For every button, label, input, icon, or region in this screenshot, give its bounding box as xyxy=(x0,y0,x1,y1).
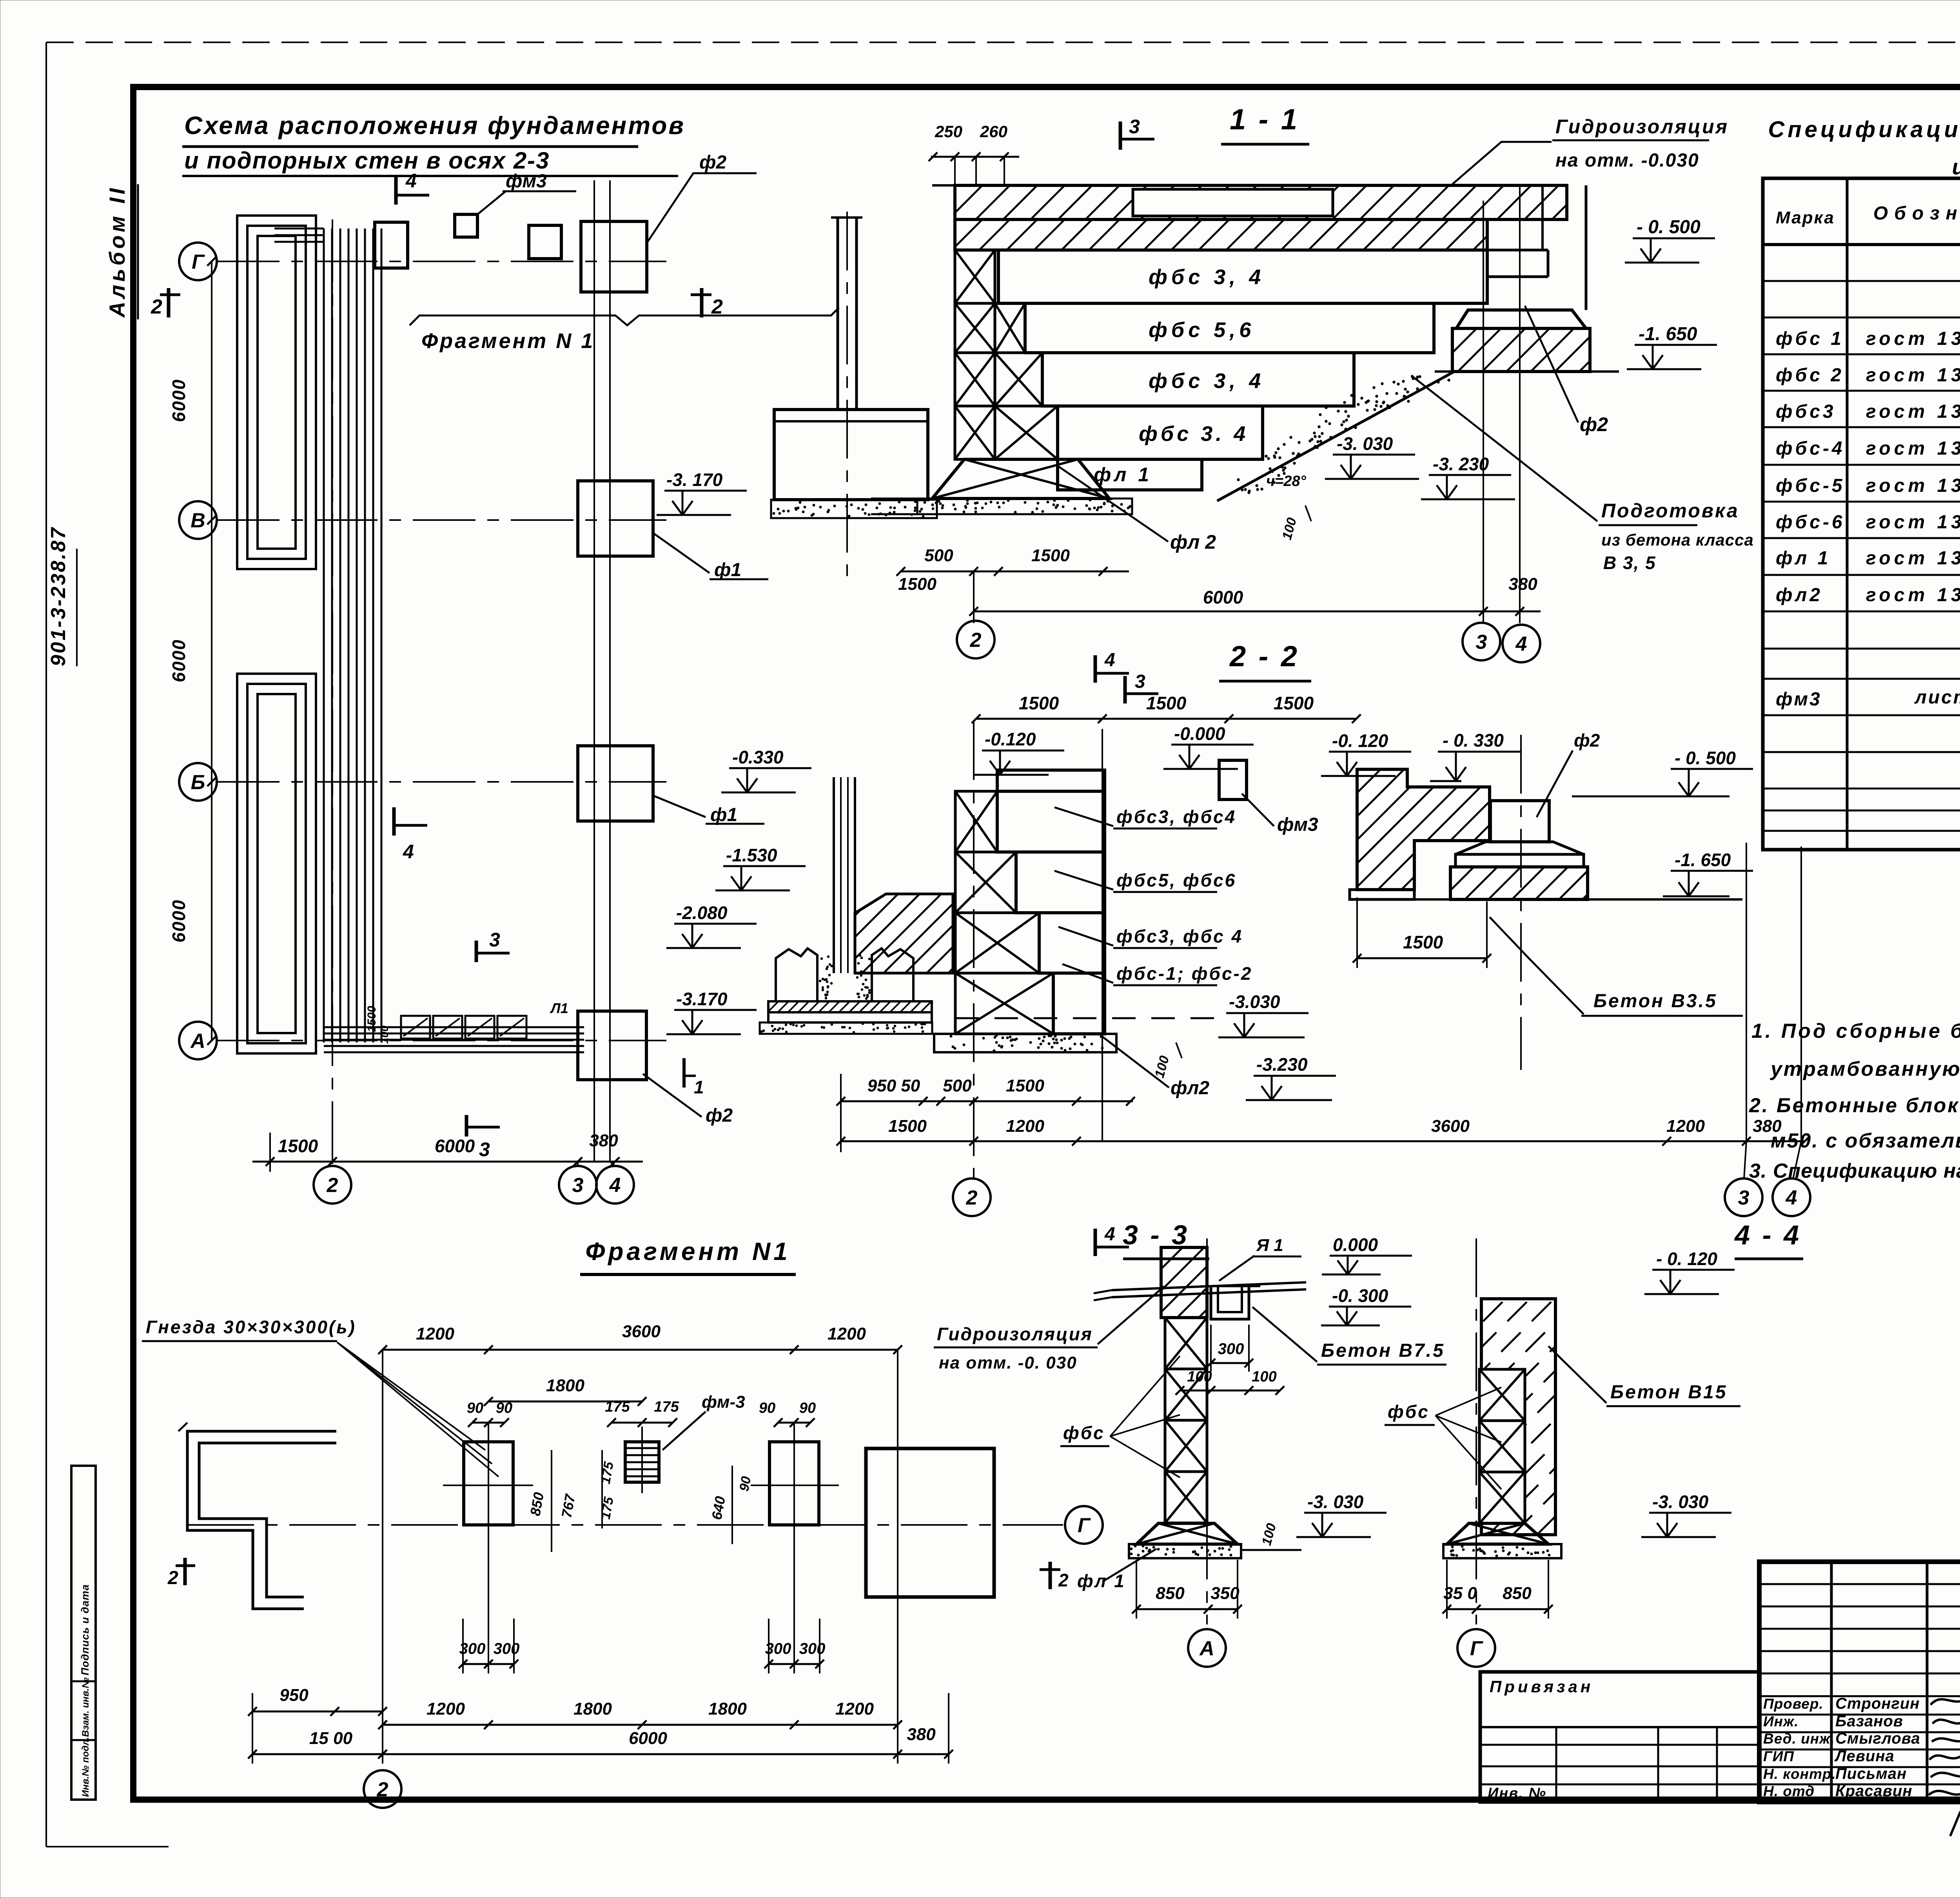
svg-text:1200: 1200 xyxy=(835,1699,874,1719)
svg-text:Красавин: Красавин xyxy=(1835,1782,1913,1800)
svg-text:4 - 4: 4 - 4 xyxy=(1734,1220,1801,1250)
svg-text:6000: 6000 xyxy=(169,899,189,943)
svg-text:3. Спецификацию на каналы с: 3. Спецификацию на каналы см. лист. кж-3… xyxy=(1749,1160,1960,1182)
svg-text:на отм. -0. 030: на отм. -0. 030 xyxy=(939,1353,1077,1372)
svg-text:-3. 030: -3. 030 xyxy=(1337,433,1393,454)
svg-text:Марка: Марка xyxy=(1776,208,1835,227)
svg-text:1. Под сборные бетонные бло: 1. Под сборные бетонные блоки выполнить … xyxy=(1751,1020,1960,1042)
svg-text:фбс5, фбс6: фбс5, фбс6 xyxy=(1116,870,1236,890)
svg-text:Инв.№ подл.: Инв.№ подл. xyxy=(80,1737,91,1797)
svg-text:- 0. 120: - 0. 120 xyxy=(1656,1249,1717,1269)
svg-text:Г: Г xyxy=(1470,1637,1483,1660)
svg-text:2: 2 xyxy=(151,295,162,318)
svg-text:гост 13580 - 85: гост 13580 - 85 xyxy=(1866,548,1960,569)
svg-text:2: 2 xyxy=(377,1778,388,1801)
svg-text:фл 1: фл 1 xyxy=(1776,548,1831,569)
svg-text:380: 380 xyxy=(907,1725,936,1744)
svg-text:2: 2 xyxy=(711,295,723,318)
svg-text:-0.000: -0.000 xyxy=(1174,723,1225,744)
svg-text:Фрагмент N 1: Фрагмент N 1 xyxy=(421,329,595,353)
svg-text:90: 90 xyxy=(496,1400,512,1416)
svg-text:Бетон В15: Бетон В15 xyxy=(1610,1382,1727,1403)
svg-text:300: 300 xyxy=(799,1640,826,1657)
svg-text:1800: 1800 xyxy=(546,1376,584,1395)
svg-text:0.000: 0.000 xyxy=(1333,1235,1378,1255)
svg-text:фбс 3, 4: фбс 3, 4 xyxy=(1149,369,1265,393)
svg-text:Смыглова: Смыглова xyxy=(1835,1730,1920,1747)
svg-text:гост 13580 - 85: гост 13580 - 85 xyxy=(1866,585,1960,605)
svg-text:-2.080: -2.080 xyxy=(676,903,728,923)
svg-text:на отм. -0.030: на отм. -0.030 xyxy=(1555,150,1699,171)
svg-text:и подпорных стен: и подпорных стен xyxy=(1952,154,1960,179)
svg-text:-3. 230: -3. 230 xyxy=(1433,454,1489,474)
svg-text:-0.330: -0.330 xyxy=(732,747,784,767)
svg-text:фбс 3. 4: фбс 3. 4 xyxy=(1139,422,1249,446)
svg-text:ф2: ф2 xyxy=(1574,730,1600,750)
svg-text:260: 260 xyxy=(980,122,1007,141)
svg-text:1200: 1200 xyxy=(416,1324,454,1343)
svg-text:850: 850 xyxy=(1503,1584,1532,1603)
svg-text:15 00: 15 00 xyxy=(309,1729,353,1748)
svg-text:лист кш 22: лист кш 22 xyxy=(1914,687,1960,708)
svg-text:фбс: фбс xyxy=(1063,1423,1105,1443)
svg-text:фл 1: фл 1 xyxy=(1094,464,1152,486)
svg-text:Инж.: Инж. xyxy=(1763,1713,1798,1729)
svg-text:фбс 5,6: фбс 5,6 xyxy=(1149,318,1255,342)
svg-text:Привязан: Привязан xyxy=(1490,1677,1593,1696)
svg-text:4: 4 xyxy=(403,841,414,863)
svg-text:1500: 1500 xyxy=(1031,546,1070,565)
svg-text:Гнезда 30×30×300(ь): Гнезда 30×30×300(ь) xyxy=(146,1317,356,1337)
svg-text:фл2: фл2 xyxy=(1776,585,1823,605)
svg-text:из бетона класса: из бетона класса xyxy=(1601,531,1754,549)
svg-text:2 - 2: 2 - 2 xyxy=(1229,640,1299,673)
svg-text:3 - 3: 3 - 3 xyxy=(1123,1220,1189,1250)
svg-text:Стронгин: Стронгин xyxy=(1835,1695,1920,1712)
svg-text:Базанов: Базанов xyxy=(1835,1713,1903,1730)
svg-text:и подпорных стен в осях 2-3: и подпорных стен в осях 2-3 xyxy=(184,147,550,174)
svg-text:-3.230: -3.230 xyxy=(1256,1054,1308,1075)
svg-text:100: 100 xyxy=(378,1025,390,1044)
svg-text:1200: 1200 xyxy=(426,1699,465,1719)
svg-text:950: 950 xyxy=(279,1686,309,1705)
svg-text:1500: 1500 xyxy=(898,575,936,594)
svg-text:Схема расположения фундаментов: Схема расположения фундаментов xyxy=(184,111,685,140)
svg-text:90: 90 xyxy=(759,1400,775,1416)
svg-text:-3. 030: -3. 030 xyxy=(1652,1492,1709,1512)
svg-text:фм3: фм3 xyxy=(1277,814,1318,835)
svg-text:Г: Г xyxy=(1078,1514,1091,1537)
svg-text:В 3, 5: В 3, 5 xyxy=(1603,553,1656,573)
svg-text:ГИП: ГИП xyxy=(1763,1748,1794,1764)
svg-text:фбс 1: фбс 1 xyxy=(1776,328,1844,349)
svg-text:Г: Г xyxy=(192,251,205,274)
svg-text:90: 90 xyxy=(799,1400,816,1416)
svg-text:- 0. 500: - 0. 500 xyxy=(1637,217,1700,237)
svg-text:175: 175 xyxy=(605,1399,630,1415)
svg-text:4: 4 xyxy=(1104,1224,1115,1245)
svg-text:Инв. №: Инв. № xyxy=(1488,1785,1546,1802)
svg-text:-0.120: -0.120 xyxy=(985,729,1036,749)
svg-text:3: 3 xyxy=(1129,116,1140,138)
svg-text:3: 3 xyxy=(489,929,500,951)
svg-text:ф2: ф2 xyxy=(706,1105,733,1126)
svg-text:250: 250 xyxy=(935,122,962,141)
svg-text:6000: 6000 xyxy=(435,1136,475,1156)
svg-text:ф1: ф1 xyxy=(710,805,737,825)
svg-text:фбс 2: фбс 2 xyxy=(1776,365,1844,386)
svg-text:175: 175 xyxy=(654,1399,679,1415)
svg-text:3: 3 xyxy=(1738,1187,1749,1209)
svg-text:6000: 6000 xyxy=(169,379,189,422)
svg-text:Вед. инж.: Вед. инж. xyxy=(1763,1731,1835,1747)
svg-text:1500: 1500 xyxy=(1403,932,1443,952)
svg-text:2: 2 xyxy=(1058,1570,1069,1590)
svg-text:Обозначение: Обозначение xyxy=(1873,203,1960,224)
svg-text:2: 2 xyxy=(966,1187,978,1209)
svg-text:фл2: фл2 xyxy=(1171,1078,1209,1099)
svg-text:90: 90 xyxy=(467,1400,483,1416)
svg-text:ф2: ф2 xyxy=(699,152,726,173)
svg-text:850: 850 xyxy=(1156,1584,1185,1603)
svg-text:500: 500 xyxy=(943,1076,972,1095)
svg-text:300: 300 xyxy=(494,1640,520,1657)
svg-text:Н. контр.: Н. контр. xyxy=(1763,1766,1836,1782)
svg-text:2: 2 xyxy=(970,629,982,652)
svg-text:1200: 1200 xyxy=(1666,1117,1705,1136)
svg-text:100: 100 xyxy=(1252,1369,1276,1385)
svg-text:фл 1: фл 1 xyxy=(1077,1571,1126,1591)
svg-text:Взам. инв.№: Взам. инв.№ xyxy=(80,1677,91,1737)
svg-text:4: 4 xyxy=(1515,633,1527,656)
svg-text:1500: 1500 xyxy=(1006,1076,1044,1095)
svg-text:Гидроизоляция: Гидроизоляция xyxy=(1555,116,1729,138)
svg-text:фбс-6: фбс-6 xyxy=(1776,512,1845,533)
svg-text:ф1: ф1 xyxy=(714,560,741,580)
svg-text:фбс-4: фбс-4 xyxy=(1776,438,1845,459)
svg-text:А: А xyxy=(1199,1637,1214,1660)
svg-text:гост 13579 - 78*: гост 13579 - 78* xyxy=(1866,401,1960,422)
svg-text:- 0. 500: - 0. 500 xyxy=(1675,748,1736,768)
svg-text:фбс3, фбс 4: фбс3, фбс 4 xyxy=(1116,926,1243,946)
svg-text:Гидроизоляция: Гидроизоляция xyxy=(937,1324,1093,1344)
svg-text:1500: 1500 xyxy=(1274,693,1314,713)
svg-text:380: 380 xyxy=(589,1131,618,1150)
svg-text:2. Бетонные блоки укладывать: 2. Бетонные блоки укладывать на цементно… xyxy=(1749,1094,1960,1117)
svg-text:фл 2: фл 2 xyxy=(1170,531,1216,553)
svg-text:фм3: фм3 xyxy=(1776,689,1822,710)
svg-text:гост 13579 - 78*: гост 13579 - 78* xyxy=(1866,365,1960,386)
svg-text:м50. с обязательной перевязк: м50. с обязательной перевязкой не менее … xyxy=(1771,1129,1960,1152)
svg-text:1500: 1500 xyxy=(1019,693,1059,713)
svg-text:-0. 120: -0. 120 xyxy=(1332,731,1388,751)
svg-text:4: 4 xyxy=(405,170,417,192)
svg-text:1: 1 xyxy=(694,1077,704,1097)
svg-text:-1. 650: -1. 650 xyxy=(1639,324,1697,344)
svg-text:-1.530: -1.530 xyxy=(726,845,777,865)
svg-text:3: 3 xyxy=(1135,671,1145,692)
svg-text:3600: 3600 xyxy=(1431,1117,1470,1136)
svg-text:гост 13579 - 78*: гост 13579 - 78* xyxy=(1866,512,1960,533)
svg-text:6000: 6000 xyxy=(169,639,189,682)
svg-text:1800: 1800 xyxy=(708,1699,747,1719)
svg-text:фбс 3, 4: фбс 3, 4 xyxy=(1149,265,1265,289)
svg-text:- 0. 330: - 0. 330 xyxy=(1443,730,1504,750)
svg-text:Подпись и дата: Подпись и дата xyxy=(79,1584,91,1675)
svg-text:1800: 1800 xyxy=(573,1699,612,1719)
svg-text:3: 3 xyxy=(479,1138,490,1160)
svg-text:-3. 030: -3. 030 xyxy=(1307,1492,1364,1512)
svg-text:-0. 300: -0. 300 xyxy=(1332,1285,1388,1306)
svg-text:6000: 6000 xyxy=(629,1729,667,1748)
svg-text:2: 2 xyxy=(327,1174,338,1197)
svg-text:-3.170: -3.170 xyxy=(676,989,728,1009)
svg-text:3: 3 xyxy=(572,1174,584,1197)
svg-text:1500: 1500 xyxy=(278,1136,318,1156)
svg-text:Бетон В3.5: Бетон В3.5 xyxy=(1593,991,1717,1012)
svg-text:35 0: 35 0 xyxy=(1443,1584,1477,1603)
svg-text:В: В xyxy=(191,509,205,532)
svg-text:4: 4 xyxy=(609,1174,621,1197)
svg-text:ч=28°: ч=28° xyxy=(1266,473,1307,489)
svg-text:90: 90 xyxy=(737,1475,754,1492)
svg-text:ф2: ф2 xyxy=(1580,413,1608,435)
svg-text:гост 13579 - 78*: гост 13579 - 78* xyxy=(1866,328,1960,349)
svg-text:350: 350 xyxy=(1210,1584,1240,1603)
svg-text:Фрагмент N1: Фрагмент N1 xyxy=(585,1237,790,1265)
svg-text:Провер.: Провер. xyxy=(1763,1696,1824,1712)
svg-text:4: 4 xyxy=(1786,1187,1797,1209)
svg-text:фбс3, фбс4: фбс3, фбс4 xyxy=(1116,807,1236,827)
svg-text:500: 500 xyxy=(924,546,953,565)
svg-text:утрамбованную песчаную подг: утрамбованную песчаную подготовку h=100м… xyxy=(1769,1058,1960,1080)
svg-text:4: 4 xyxy=(1104,650,1115,671)
svg-text:300: 300 xyxy=(1218,1340,1244,1358)
svg-text:1500: 1500 xyxy=(888,1117,927,1136)
svg-text:3: 3 xyxy=(1476,631,1487,654)
svg-text:-1. 650: -1. 650 xyxy=(1675,850,1731,870)
svg-text:Левина: Левина xyxy=(1834,1748,1895,1765)
svg-text:Бетон В7.5: Бетон В7.5 xyxy=(1321,1340,1445,1361)
svg-text:1500: 1500 xyxy=(365,1006,378,1032)
svg-text:2: 2 xyxy=(167,1568,178,1588)
svg-text:Б: Б xyxy=(191,771,205,794)
svg-text:1200: 1200 xyxy=(1006,1117,1044,1136)
svg-text:Н. отд: Н. отд xyxy=(1763,1783,1815,1799)
svg-text:Л1: Л1 xyxy=(550,1000,568,1016)
svg-text:фбс-1; фбс-2: фбс-1; фбс-2 xyxy=(1116,963,1252,984)
svg-text:Альбом II: Альбом II xyxy=(105,185,129,318)
svg-text:1500: 1500 xyxy=(1146,693,1187,713)
svg-text:901-3-238.87: 901-3-238.87 xyxy=(47,526,70,666)
svg-text:Письман: Письман xyxy=(1835,1765,1907,1782)
svg-text:гост 13579 - 78*: гост 13579 - 78* xyxy=(1866,438,1960,459)
svg-text:6000: 6000 xyxy=(1203,587,1243,607)
svg-text:А: А xyxy=(190,1030,205,1053)
svg-text:1 - 1: 1 - 1 xyxy=(1230,103,1299,136)
svg-text:950 50: 950 50 xyxy=(867,1076,920,1095)
svg-text:фбс-5: фбс-5 xyxy=(1776,475,1845,496)
svg-text:Я 1: Я 1 xyxy=(1256,1236,1283,1255)
svg-text:Спецификация к схеме располож: Спецификация к схеме расположения фундам… xyxy=(1768,117,1960,142)
svg-text:-3.030: -3.030 xyxy=(1229,992,1280,1012)
svg-text:фбс: фбс xyxy=(1388,1401,1430,1422)
svg-text:-3. 170: -3. 170 xyxy=(666,470,723,490)
svg-text:гост 13579 - 78*: гост 13579 - 78* xyxy=(1866,475,1960,496)
svg-text:фм3: фм3 xyxy=(506,171,547,192)
svg-text:3600: 3600 xyxy=(622,1322,661,1341)
svg-text:Подготовка: Подготовка xyxy=(1601,500,1739,522)
svg-text:1200: 1200 xyxy=(828,1324,866,1343)
svg-text:380: 380 xyxy=(1508,575,1537,594)
svg-text:фбс3: фбс3 xyxy=(1776,401,1836,422)
svg-text:фм-3: фм-3 xyxy=(702,1392,745,1412)
